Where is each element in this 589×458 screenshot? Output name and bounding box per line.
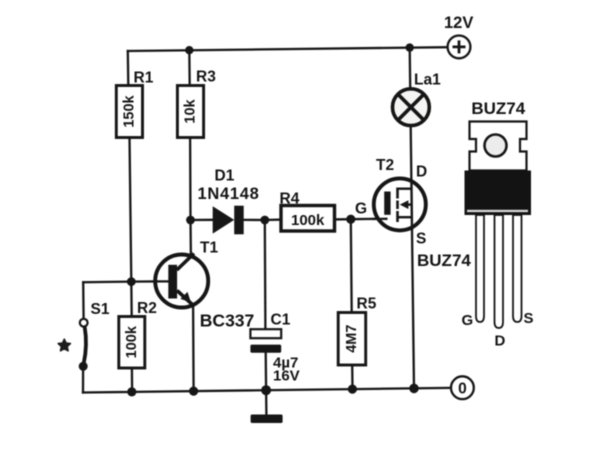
wire R3 bottom to diode junction bbox=[189, 138, 192, 221]
svg-text:12V: 12V bbox=[444, 14, 473, 32]
wire C1 bottom to ground rail bbox=[265, 352, 268, 390]
svg-text:150k: 150k bbox=[121, 94, 137, 127]
svg-text:G: G bbox=[355, 201, 367, 218]
wire S1 bottom to ground rail bbox=[82, 367, 84, 393]
wire top supply rail bbox=[128, 47, 448, 51]
resistor R5 bbox=[338, 313, 366, 366]
switch S1 bbox=[79, 319, 88, 371]
wire base junction to R2 top bbox=[130, 282, 133, 317]
svg-text:G: G bbox=[462, 312, 474, 329]
svg-text:4M7: 4M7 bbox=[344, 325, 360, 353]
package mounting hole bbox=[485, 135, 507, 157]
svg-text:R1: R1 bbox=[134, 70, 154, 87]
svg-text:1N4148: 1N4148 bbox=[198, 185, 260, 203]
wire C1 junction to R4 bbox=[265, 218, 282, 221]
capacitor C1 bbox=[250, 329, 281, 353]
resistor R1 bbox=[116, 86, 142, 138]
node base junction bbox=[127, 277, 136, 286]
wire R4 to gate junction bbox=[335, 218, 351, 220]
resistor R3 bbox=[177, 86, 203, 138]
wire ground rail bbox=[83, 388, 449, 393]
wire T1 emitter to ground rail bbox=[192, 306, 195, 392]
svg-text:T2: T2 bbox=[376, 157, 394, 174]
diode D1 bbox=[213, 206, 244, 235]
mosfet T2 bbox=[373, 178, 426, 230]
resistor R4 bbox=[281, 206, 335, 232]
wire C1 junction down to C1 bbox=[264, 220, 267, 330]
svg-text:D1: D1 bbox=[215, 168, 235, 185]
svg-text:S: S bbox=[524, 310, 534, 327]
star footnote mark bbox=[58, 339, 70, 351]
svg-text:0: 0 bbox=[458, 380, 467, 397]
svg-text:R2: R2 bbox=[137, 300, 157, 317]
lamp La1 bbox=[393, 89, 430, 126]
wire S1 branch down to switch bbox=[82, 282, 85, 319]
wire R2 bottom to ground rail bbox=[131, 368, 134, 392]
wire S1 branch horizontal bbox=[83, 280, 131, 283]
svg-text:BUZ74: BUZ74 bbox=[417, 251, 471, 270]
wire base junction to T1 base bbox=[131, 280, 169, 283]
node diode anode junction bbox=[186, 216, 195, 225]
package body bbox=[465, 171, 532, 216]
svg-text:R3: R3 bbox=[196, 69, 216, 86]
node gate junction bbox=[346, 215, 355, 224]
svg-text:10k: 10k bbox=[183, 98, 199, 123]
svg-text:D: D bbox=[416, 164, 427, 181]
wire gate junction down to R5 bbox=[350, 219, 353, 312]
wire diode anode bbox=[191, 219, 214, 221]
node rail R5 junction bbox=[348, 385, 357, 394]
terminal +12V bbox=[448, 36, 471, 59]
wire diode cathode to C1 junction bbox=[244, 219, 265, 221]
svg-text:R5: R5 bbox=[357, 296, 377, 313]
package pin G bbox=[476, 215, 484, 322]
wire R5 bottom to ground rail bbox=[351, 365, 354, 389]
BUZ74 package drawing bbox=[462, 99, 534, 350]
node rail emitter junction bbox=[189, 387, 198, 396]
resistor R2 bbox=[119, 317, 145, 369]
svg-text:S: S bbox=[416, 231, 426, 248]
transistor T1 bbox=[153, 254, 208, 308]
svg-text:C1: C1 bbox=[271, 312, 291, 329]
wire ground stub below rail bbox=[265, 390, 268, 415]
wire left column R1 top bbox=[127, 51, 130, 86]
wire lamp / mosfet column bbox=[410, 48, 414, 389]
svg-text:R4: R4 bbox=[280, 191, 300, 208]
svg-text:T1: T1 bbox=[200, 240, 218, 257]
package body groove bbox=[467, 210, 528, 212]
node rail C1 junction bbox=[261, 385, 271, 395]
svg-text:BUZ74: BUZ74 bbox=[471, 99, 525, 118]
node top rail R3 junction bbox=[185, 46, 193, 54]
wire R3 top bbox=[188, 50, 191, 85]
svg-text:100k: 100k bbox=[124, 325, 140, 358]
svg-text:La1: La1 bbox=[414, 72, 441, 89]
node diode cathode junction bbox=[260, 216, 269, 225]
terminal 0 bbox=[451, 376, 474, 399]
svg-text:BC337: BC337 bbox=[200, 311, 254, 331]
node top rail lamp junction bbox=[406, 43, 414, 51]
package pin S bbox=[513, 215, 522, 322]
wire gate junction to T2 gate bbox=[351, 218, 388, 221]
node rail mosfet junction bbox=[409, 384, 419, 394]
wire R1 bottom to base junction bbox=[130, 138, 132, 282]
wire diode junction to T1 collector bbox=[189, 220, 192, 257]
node rail R2 junction bbox=[127, 387, 136, 396]
svg-text:D: D bbox=[495, 333, 506, 350]
svg-text:100k: 100k bbox=[291, 212, 325, 229]
svg-text:S1: S1 bbox=[91, 301, 110, 318]
ground bbox=[251, 415, 283, 424]
package pin D bbox=[495, 215, 504, 328]
svg-text:16V: 16V bbox=[273, 368, 300, 385]
package tab bbox=[470, 122, 527, 171]
